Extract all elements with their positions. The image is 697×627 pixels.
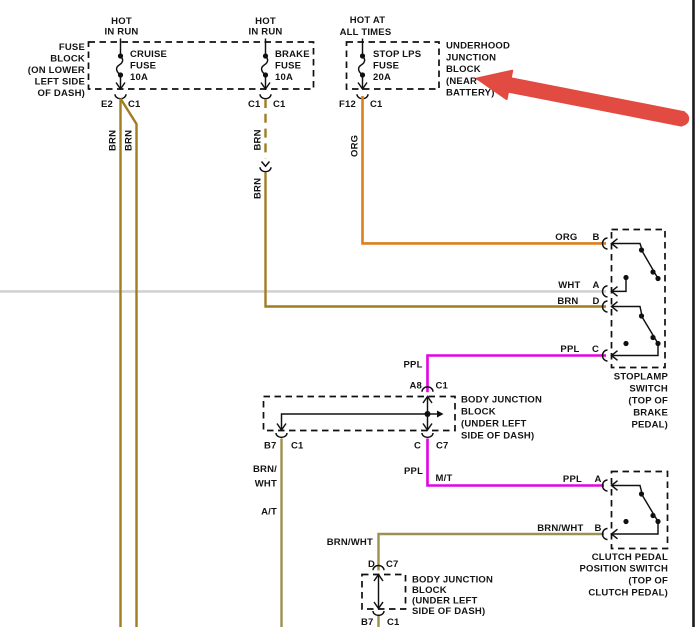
svg-text:(NEAR: (NEAR — [446, 76, 477, 87]
svg-text:BRN: BRN — [253, 129, 264, 150]
svg-text:(UNDER LEFT: (UNDER LEFT — [461, 419, 527, 430]
wire BRN from brake fuse (dashed segment) — [264, 99, 266, 159]
pin labels C C7 — [414, 441, 449, 452]
svg-text:OF DASH): OF DASH) — [37, 88, 85, 99]
svg-text:D: D — [368, 559, 375, 570]
stoplamp switch name label — [614, 372, 669, 431]
bottom body junction block name label — [412, 575, 493, 618]
svg-text:20A: 20A — [373, 72, 391, 83]
svg-text:STOPLAMP: STOPLAMP — [614, 372, 669, 383]
svg-text:WHT: WHT — [255, 479, 277, 490]
svg-text:D: D — [592, 296, 599, 307]
clutch pedal position switch internals — [612, 481, 661, 539]
pin D terminal arrow — [612, 302, 618, 312]
contact to pin A — [623, 275, 628, 280]
stoplamp terminal cups B A D C — [603, 238, 608, 361]
wire label BRN/WHT + pin B (clutch) — [537, 523, 601, 534]
pin B terminal arrow — [612, 239, 618, 249]
body junction block (bottom) internals — [374, 575, 383, 609]
svg-text:CRUISE: CRUISE — [130, 49, 167, 60]
svg-text:B: B — [592, 232, 599, 243]
svg-text:HOT AT: HOT AT — [350, 15, 386, 26]
svg-text:BATTERY): BATTERY) — [446, 88, 495, 99]
stoplamp switch internals: contacts and blades — [612, 239, 661, 361]
svg-text:PPL: PPL — [563, 474, 582, 485]
svg-text:10A: 10A — [275, 72, 293, 83]
switch blade from pin A — [612, 486, 642, 492]
clutch pedal position switch name label — [580, 552, 669, 599]
svg-text:C7: C7 — [386, 559, 399, 570]
switch blade 2 from pin D — [612, 307, 642, 314]
connector cup F12/C1 under stop lps fuse — [357, 94, 368, 98]
clutch terminal cups A B — [603, 480, 608, 540]
svg-text:BRN/WHT: BRN/WHT — [537, 523, 583, 534]
body junction block (middle) internals — [277, 397, 444, 431]
svg-text:C7: C7 — [436, 441, 449, 452]
node label HOT IN RUN (cruise) — [105, 16, 139, 38]
svg-text:SIDE OF DASH): SIDE OF DASH) — [412, 606, 485, 617]
underhood junction block dashed outline — [347, 42, 440, 89]
pin labels D C7 (bottom block) — [368, 559, 399, 570]
wire PPL from body junction block C to clutch switch pin A (M/T) — [428, 439, 605, 486]
svg-text:PEDAL): PEDAL) — [631, 420, 668, 431]
svg-text:(ON LOWER: (ON LOWER — [28, 65, 85, 76]
connector cup C/C7 under middle junction block — [422, 433, 433, 437]
svg-text:HOT: HOT — [111, 16, 132, 27]
down arrow to C — [423, 424, 432, 431]
svg-text:A: A — [592, 280, 599, 291]
svg-text:C1: C1 — [273, 99, 286, 110]
svg-text:C1: C1 — [291, 441, 304, 452]
svg-text:(TOP OF: (TOP OF — [628, 396, 668, 407]
svg-text:C: C — [592, 344, 599, 355]
svg-text:C1: C1 — [128, 99, 141, 110]
body junction block (bottom) dashed outline — [362, 575, 406, 610]
switch blade 1 from pin B — [612, 244, 642, 249]
svg-text:BRAKE: BRAKE — [633, 408, 668, 419]
cruise fuse value label — [130, 49, 167, 83]
fuse block (dash panel) dashed outline — [89, 42, 314, 89]
node label HOT IN RUN (brake) — [249, 16, 283, 38]
svg-text:C: C — [414, 441, 421, 452]
body junction block (middle) dashed outline — [264, 397, 456, 431]
svg-text:POSITION SWITCH: POSITION SWITCH — [580, 564, 669, 575]
svg-text:BRAKE: BRAKE — [275, 49, 310, 60]
svg-text:BODY JUNCTION: BODY JUNCTION — [461, 395, 542, 406]
pin labels F12 C1 — [339, 99, 383, 110]
wire BRN/WHT below bottom body junction block B7 — [377, 616, 379, 627]
wire ORG from F12 to stoplamp switch pin B — [363, 96, 607, 243]
up arrow at A8 — [423, 397, 432, 404]
svg-text:BLOCK: BLOCK — [50, 54, 85, 65]
wire BRN from in-line connector to stoplamp switch pin D — [266, 173, 607, 307]
svg-text:B7: B7 — [264, 441, 277, 452]
fuse F2 BRAKE FUSE 10A symbol — [261, 39, 270, 90]
unused contact dot — [623, 341, 628, 346]
svg-text:UNDERHOOD: UNDERHOOD — [446, 41, 510, 52]
pin A terminal arrow — [612, 287, 618, 297]
in-line connector on BRN wire — [260, 162, 271, 172]
pin C terminal arrow — [612, 351, 618, 361]
svg-text:BODY JUNCTION: BODY JUNCTION — [412, 575, 493, 586]
svg-text:FUSE: FUSE — [275, 61, 301, 72]
svg-text:IN RUN: IN RUN — [105, 27, 139, 38]
svg-text:B: B — [594, 523, 601, 534]
pin labels A8 C1 — [410, 380, 449, 391]
svg-text:M/T: M/T — [436, 473, 453, 484]
svg-text:FUSE: FUSE — [59, 42, 85, 53]
branch to B7 — [282, 414, 428, 429]
svg-text:A/T: A/T — [261, 507, 277, 518]
svg-text:BRN/WHT: BRN/WHT — [327, 537, 373, 548]
pin labels B7 C1 (bottom block) — [361, 617, 400, 627]
svg-text:STOP LPS: STOP LPS — [373, 49, 421, 60]
svg-text:B7: B7 — [361, 617, 374, 627]
wire label BRN + pin D — [557, 296, 599, 307]
svg-text:(UNDER LEFT: (UNDER LEFT — [412, 596, 478, 607]
wire PPL from stoplamp switch pin C to body junction block A8 — [428, 356, 607, 393]
pin labels B7 C1 — [264, 441, 304, 452]
wire label PPL + pin C — [560, 344, 599, 355]
svg-text:CLUTCH PEDAL): CLUTCH PEDAL) — [588, 588, 668, 599]
wire BRN/WHT from body junction block B7 down page (A/T) — [280, 439, 282, 627]
pin labels C1 C1 — [248, 99, 286, 110]
svg-text:SWITCH: SWITCH — [629, 384, 668, 395]
middle body junction block name label — [461, 395, 542, 442]
svg-text:BLOCK: BLOCK — [446, 64, 481, 75]
brake fuse value label — [275, 49, 310, 83]
wire BRN from E2 down page — [119, 99, 121, 627]
svg-text:ALL TIMES: ALL TIMES — [340, 27, 392, 38]
wire label ORG + pin B — [555, 232, 599, 243]
svg-text:PPL: PPL — [404, 466, 423, 477]
svg-text:JUNCTION: JUNCTION — [446, 52, 496, 63]
svg-text:C1: C1 — [248, 99, 261, 110]
page border line right — [692, 0, 695, 627]
svg-text:BRN/: BRN/ — [253, 464, 277, 475]
pin labels E2 C1 — [101, 99, 141, 110]
svg-text:PPL: PPL — [560, 344, 579, 355]
svg-text:HOT: HOT — [255, 16, 276, 27]
svg-text:IN RUN: IN RUN — [249, 27, 283, 38]
wire label PPL + pin A (clutch) — [563, 474, 602, 485]
svg-text:WHT: WHT — [558, 280, 580, 291]
fuse F1 CRUISE FUSE 10A symbol — [116, 39, 125, 90]
svg-text:10A: 10A — [130, 72, 148, 83]
wire BRN from C1 down page — [121, 99, 137, 627]
svg-text:BRN: BRN — [124, 130, 135, 151]
svg-text:A8: A8 — [410, 380, 423, 391]
svg-text:BLOCK: BLOCK — [461, 407, 496, 418]
svg-text:PPL: PPL — [404, 359, 423, 370]
connector cup D/C7 on top of bottom junction block — [373, 566, 384, 571]
connector cup E2/C1 under cruise fuse — [115, 94, 126, 98]
connector cup A8/C1 on top of middle junction block — [422, 387, 433, 392]
fuse block name label — [28, 42, 85, 99]
svg-text:BRN: BRN — [108, 130, 119, 151]
svg-text:FUSE: FUSE — [130, 61, 156, 72]
underhood junction block name label — [446, 41, 510, 99]
stop lps fuse value label — [373, 49, 421, 83]
svg-text:SIDE OF DASH): SIDE OF DASH) — [461, 431, 534, 442]
stoplamp switch dashed outline — [612, 230, 666, 368]
path from blade to pin B — [612, 522, 659, 535]
svg-text:C1: C1 — [370, 99, 383, 110]
connector cup B7/C1 under bottom junction block — [373, 611, 384, 615]
svg-text:LEFT SIDE: LEFT SIDE — [35, 77, 85, 88]
wire label WHT + pin A — [558, 280, 599, 291]
svg-text:(TOP OF: (TOP OF — [628, 576, 668, 587]
fuse F3 STOP LPS FUSE 20A symbol — [358, 39, 367, 90]
svg-text:C1: C1 — [387, 617, 400, 627]
stub arrow to right — [428, 413, 438, 415]
svg-text:CLUTCH PEDAL: CLUTCH PEDAL — [592, 552, 668, 563]
connector cup B7/C1 under middle junction block — [276, 433, 287, 437]
junction dot — [425, 411, 431, 417]
pin A terminal arrow — [612, 481, 618, 491]
svg-text:ORG: ORG — [350, 135, 361, 157]
path from blade 2 to pin C — [612, 344, 659, 356]
svg-text:BLOCK: BLOCK — [412, 585, 447, 596]
wire label BRN/WHT (B7 wire) — [253, 464, 277, 490]
svg-text:C1: C1 — [436, 380, 449, 391]
svg-text:FUSE: FUSE — [373, 61, 399, 72]
wire BRN/WHT from clutch switch pin B to bottom body junction block D — [379, 534, 605, 571]
svg-text:ORG: ORG — [555, 232, 577, 243]
wire WHT to stoplamp switch pin A — [0, 290, 606, 293]
svg-text:BRN: BRN — [557, 296, 578, 307]
svg-text:BRN: BRN — [253, 178, 264, 199]
svg-text:E2: E2 — [101, 99, 113, 110]
node label HOT AT ALL TIMES — [340, 15, 392, 38]
clutch pedal position switch dashed outline — [612, 472, 668, 549]
unused contact dot — [623, 519, 628, 524]
pin B terminal arrow — [612, 529, 618, 539]
svg-text:F12: F12 — [339, 99, 356, 110]
red callout arrow — [477, 71, 684, 126]
svg-text:A: A — [594, 474, 601, 485]
connector cup C1/C1 under brake fuse — [260, 94, 271, 98]
